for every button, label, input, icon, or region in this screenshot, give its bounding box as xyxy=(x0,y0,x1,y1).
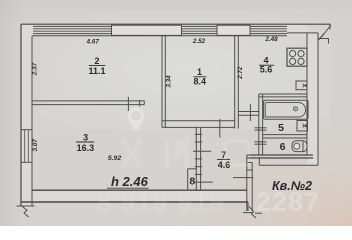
toilet door ticks xyxy=(255,142,267,144)
kitchen door tick xyxy=(249,104,251,121)
svg-text:2.48: 2.48 xyxy=(264,36,278,43)
bath door ticks xyxy=(255,128,267,130)
washbasin xyxy=(297,121,308,132)
left wall outer line xyxy=(20,24,22,206)
svg-text:16.3: 16.3 xyxy=(77,143,95,153)
wall between rooms 2 and 3 xyxy=(32,101,144,105)
toilet xyxy=(292,141,307,152)
top exterior wall band xyxy=(21,24,307,36)
wall between kitchen and bath xyxy=(259,94,307,97)
svg-text:2.37: 2.37 xyxy=(32,62,39,76)
balcony rail line xyxy=(318,38,329,40)
right wall inner line xyxy=(306,33,308,155)
watermark rounded square xyxy=(225,141,249,165)
outer wall step bottom right xyxy=(259,158,318,165)
stove xyxy=(287,48,307,66)
corridor right wall xyxy=(247,155,252,211)
bottom wall outer line xyxy=(21,201,248,203)
svg-text:2.72: 2.72 xyxy=(237,66,244,80)
top wall outer line xyxy=(21,23,330,25)
door jamb tick room 2/3 a xyxy=(127,97,129,111)
underline of h 2.46 xyxy=(107,187,149,189)
svg-text:11.1: 11.1 xyxy=(88,66,105,76)
top wall hatch segment right xyxy=(250,26,287,33)
door tick room 1 xyxy=(219,119,221,138)
svg-text:2: 2 xyxy=(94,56,99,66)
watermark letter X shape xyxy=(123,139,141,167)
right wall outer line xyxy=(317,33,319,165)
bottom wall outer corner drop xyxy=(247,202,249,211)
svg-text:3.07: 3.07 xyxy=(32,139,39,152)
wall between hall and kitchen xyxy=(238,112,259,116)
svg-text:5: 5 xyxy=(278,122,284,134)
kitchen sink xyxy=(296,81,307,90)
window W2 room 1 xyxy=(217,25,250,35)
left wall inner line xyxy=(31,36,33,206)
wall between room 3 and hall xyxy=(195,127,202,190)
svg-text:2.52: 2.52 xyxy=(192,38,206,45)
svg-text:3.34: 3.34 xyxy=(165,75,172,88)
svg-text:5.6: 5.6 xyxy=(260,65,273,75)
svg-text:6: 6 xyxy=(280,141,286,153)
svg-text:2287: 2287 xyxy=(256,187,320,217)
top wall hatch segment middle xyxy=(182,26,218,33)
room 4 fraction bar xyxy=(259,64,274,66)
balcony rail end tick xyxy=(328,39,330,44)
svg-text:5.92: 5.92 xyxy=(108,155,121,162)
left exterior wall band xyxy=(21,24,32,209)
wall between rooms 5 and 6 xyxy=(263,135,307,138)
window W3 room 3 left wall xyxy=(21,130,32,163)
svg-text:3: 3 xyxy=(83,132,88,142)
bathroom block left wall xyxy=(259,94,263,155)
room 7 fraction bar xyxy=(217,158,230,160)
svg-text:8 919 919: 8 919 919 xyxy=(96,187,225,217)
hall door tick lower xyxy=(195,181,213,183)
svg-text:1: 1 xyxy=(197,67,202,77)
watermark letters ghost xyxy=(167,140,187,168)
top wall inner line xyxy=(32,35,287,37)
closet 8 walls xyxy=(188,169,197,190)
balcony break slash xyxy=(322,25,332,37)
wall between room 1 and kitchen xyxy=(235,36,239,129)
balcony wall second line xyxy=(287,32,318,34)
bottom exterior wall band xyxy=(32,190,247,202)
window W1 room 2 xyxy=(112,25,182,35)
room 1 fraction bar xyxy=(193,76,206,78)
room 2 fraction bar xyxy=(89,65,106,67)
bottom wall inner line xyxy=(32,189,247,191)
watermark pin icon xyxy=(128,108,145,131)
svg-text:4.67: 4.67 xyxy=(86,38,100,45)
bathtub xyxy=(264,100,308,119)
svg-text:8.4: 8.4 xyxy=(194,77,207,87)
room 3 fraction bar xyxy=(76,141,94,143)
top wall hatch segment left xyxy=(33,26,112,33)
toilet room bottom wall xyxy=(247,155,313,158)
door jamb tick room 2/3 b xyxy=(139,100,141,106)
wall between rooms 2 and 1 xyxy=(162,36,165,128)
left wall break mark xyxy=(17,206,35,217)
hall door tick upper xyxy=(193,150,211,152)
wall between room 1 and hall xyxy=(162,121,235,128)
right exterior wall band xyxy=(307,33,318,165)
balcony end tick top xyxy=(329,24,331,29)
entrance door tick xyxy=(233,177,253,179)
balcony break slash small xyxy=(319,34,325,41)
svg-text:8: 8 xyxy=(189,175,195,187)
corridor break mark xyxy=(243,207,262,219)
